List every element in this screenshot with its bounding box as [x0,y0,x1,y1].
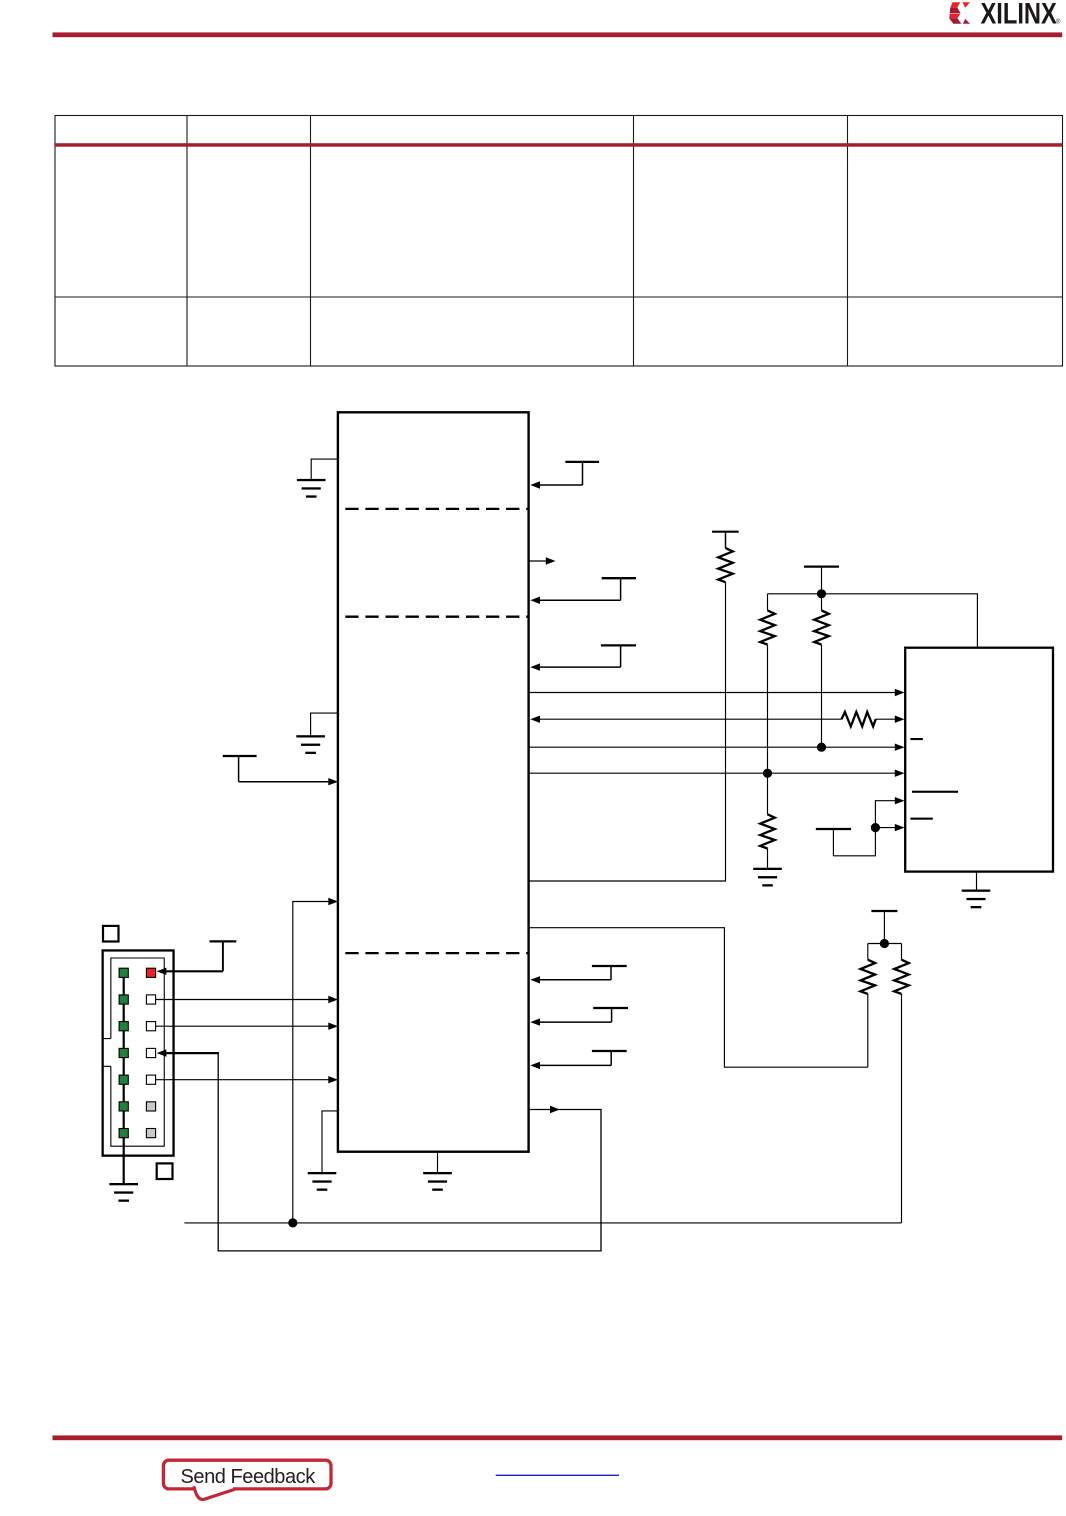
power symbol above resistor R1 [712,532,739,548]
footer link underline [496,1475,619,1476]
power symbol right side (y966) [592,966,627,980]
table row divider [55,296,1063,298]
ground below U2 [962,873,991,909]
power symbol right side (y1051) [592,1051,627,1065]
wire power into U1 right edge (y485) [530,481,582,488]
footer rule [53,1435,1063,1440]
resistor R2 [760,594,775,773]
J1 signal pins (white) [146,995,155,1084]
U1 dashed section separator 3 [345,952,528,954]
svg-text:®: ® [1056,19,1061,26]
J1 unused pins (gray) [146,1102,155,1138]
wire power into U1 right edge (y1022.1) [530,1018,611,1025]
power symbol (y578) [602,578,636,600]
power symbol above J1 VREF [210,941,237,971]
J1 pin VREF (red) [146,968,155,977]
U2 pin-name overline dashes [910,738,958,820]
ground below R4 [753,868,782,887]
table outer border [55,116,1063,367]
J1 ground bus line [123,968,125,1183]
power symbol top-right of U1 [565,462,599,485]
PROM block U2 [905,648,1053,872]
wire VREF into J1 [157,968,223,975]
resistor R3 [814,594,829,747]
power symbol for U2 enable pins [816,829,851,856]
node junction resistor pair [880,939,889,948]
table column dividers [187,116,848,367]
node junction on line4 [763,769,772,778]
send feedback button [163,1460,331,1499]
ground at U1 mid-left [296,713,338,754]
svg-text:Send Feedback: Send Feedback [181,1466,317,1488]
power symbol above pull-up rail [804,567,839,594]
JTAG connector J1 outer body [103,950,174,1155]
Xilinx logo glyph [949,2,970,24]
Xilinx wordmark [981,0,1062,30]
wire DONE net (y927.7) [529,928,868,1067]
wire power into U1 right edge (y600) [530,597,620,604]
wire bottom net up into U1 left pin (y901.5) [293,898,338,1223]
resistor R4 pull-down [760,773,775,868]
wire U1 to U2 line1 (y692.5) [529,689,905,696]
resistor R1 [718,548,733,582]
header rule [53,32,1063,37]
U1 dashed section separator 2 [345,616,528,618]
FPGA block U1 [338,412,529,1151]
wire J1 TCK to U1 (y999.5) [156,996,338,1003]
power symbol (y645) [601,645,636,667]
wire power into U1 right edge (y1065.4) [530,1062,611,1069]
wire power into U1 right edge (y979.8) [530,976,611,983]
power symbol above resistor pair [871,911,897,944]
ground stub U1 bottom-left [308,1111,338,1191]
wire branch to resistor pair [868,943,902,945]
ground at U1 upper-left [297,459,338,498]
output stub arrow (y561) [529,557,556,564]
wire bottom net (y1223) [184,1222,901,1224]
wire power into U1 right edge (y667) [530,663,620,670]
wire PROG into U1 left edge [239,778,338,785]
J1 ground pins column [119,968,128,1137]
U1 dashed section separator 1 [345,508,528,510]
J1 polarization square top [103,926,119,942]
wire J1 TMS to U1 (y1079.7) [156,1076,338,1083]
node junction enable net [871,823,880,832]
wire line3 (y747.2) [529,744,905,751]
node junction on line3 [817,743,826,752]
wire enable net to U2 pins [833,797,904,856]
table header underline [55,143,1063,147]
power symbol right side (y1008) [593,1008,628,1022]
wire R1 to U1 right edge (y881) [529,582,726,881]
svg-text:XILINX: XILINX [981,0,1057,30]
J1 inner body with key notch [103,958,165,1146]
wire U1 TDO loop to connector pin [157,1049,601,1251]
resistor R7 [861,944,876,1068]
power symbol at PROG pin [223,756,257,782]
node junction bottom net [288,1218,297,1227]
ground below J1 [109,1183,138,1202]
resistor R6 series in line2 [842,712,876,726]
wire pull-up rail (y594) to U2 top pin [768,594,978,647]
ground U1 bottom [423,1152,452,1191]
resistor R8 [894,944,909,1223]
wire line2 bidirectional (y719.2) [530,716,904,723]
wire J1 TDI to U1 (y1026.2) [156,1022,338,1029]
wire line4 (y773.2) [529,770,905,777]
J1 polarization square bottom [157,1163,173,1179]
node rail junction [817,589,826,598]
